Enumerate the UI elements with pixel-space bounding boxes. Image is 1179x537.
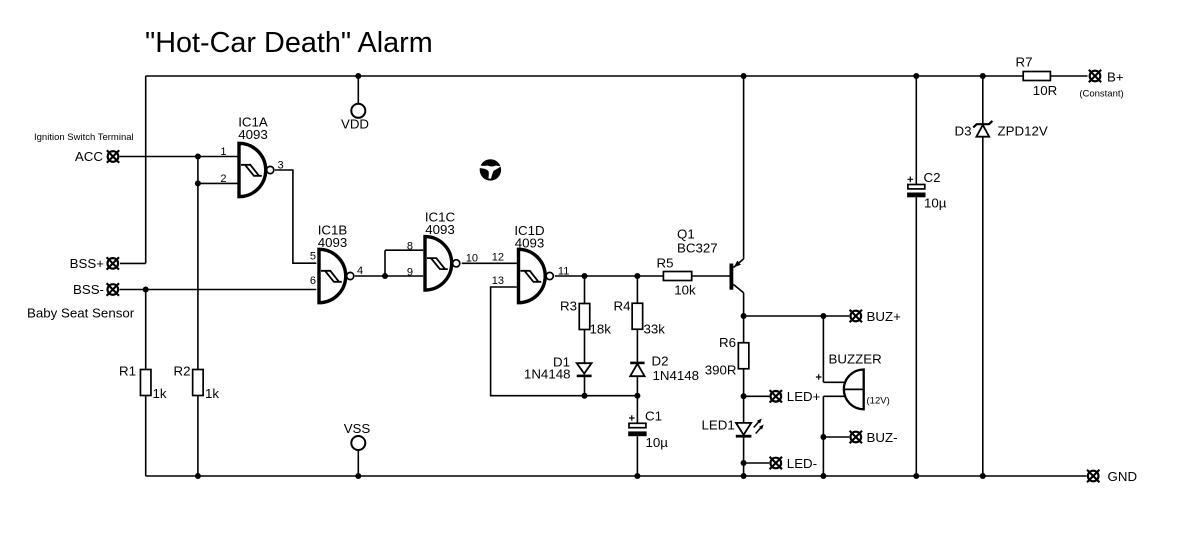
svg-text:LED-: LED- <box>787 456 817 471</box>
svg-text:(12V): (12V) <box>867 396 890 407</box>
svg-text:8: 8 <box>407 241 413 253</box>
svg-text:ZPD12V: ZPD12V <box>998 124 1048 139</box>
svg-text:D2: D2 <box>652 354 669 369</box>
svg-text:C2: C2 <box>924 170 941 185</box>
svg-text:1k: 1k <box>153 386 167 401</box>
svg-text:Ignition Switch Terminal: Ignition Switch Terminal <box>34 132 134 143</box>
svg-text:5: 5 <box>310 251 316 263</box>
svg-text:R2: R2 <box>174 364 191 379</box>
svg-text:13: 13 <box>492 275 504 287</box>
svg-text:4093: 4093 <box>425 222 455 237</box>
svg-text:1k: 1k <box>205 386 219 401</box>
svg-text:6: 6 <box>310 275 316 287</box>
svg-text:GND: GND <box>1108 469 1138 484</box>
svg-text:10: 10 <box>466 253 478 265</box>
svg-text:BSS+: BSS+ <box>70 256 105 271</box>
svg-text:1: 1 <box>220 146 226 158</box>
svg-text:10µ: 10µ <box>924 196 947 211</box>
svg-text:Q1: Q1 <box>677 227 695 242</box>
svg-text:R5: R5 <box>657 256 674 271</box>
svg-text:LED1: LED1 <box>702 418 735 433</box>
svg-text:R4: R4 <box>614 299 631 314</box>
svg-text:C1: C1 <box>645 409 662 424</box>
svg-text:ACC: ACC <box>75 149 103 164</box>
svg-text:12: 12 <box>492 252 504 264</box>
svg-text:Baby Seat Sensor: Baby Seat Sensor <box>27 306 135 321</box>
svg-text:10µ: 10µ <box>646 435 669 450</box>
svg-text:BUZ+: BUZ+ <box>867 309 902 324</box>
svg-text:1N4148: 1N4148 <box>524 367 571 382</box>
svg-text:9: 9 <box>407 267 413 279</box>
svg-text:4093: 4093 <box>515 236 545 251</box>
svg-text:BUZZER: BUZZER <box>829 352 882 367</box>
svg-text:VDD: VDD <box>341 117 369 132</box>
svg-text:4: 4 <box>357 265 363 277</box>
svg-text:R1: R1 <box>119 364 136 379</box>
svg-text:R6: R6 <box>719 335 736 350</box>
svg-text:33k: 33k <box>644 322 666 337</box>
svg-text:D3: D3 <box>955 124 972 139</box>
svg-text:BC327: BC327 <box>677 241 718 256</box>
svg-text:VSS: VSS <box>344 421 371 436</box>
svg-text:4093: 4093 <box>238 127 268 142</box>
svg-text:3: 3 <box>278 160 284 172</box>
svg-text:2: 2 <box>220 173 226 185</box>
svg-text:1N4148: 1N4148 <box>653 368 700 383</box>
svg-text:18k: 18k <box>590 322 612 337</box>
svg-text:"Hot-Car Death" Alarm: "Hot-Car Death" Alarm <box>145 27 433 59</box>
svg-text:390R: 390R <box>705 363 737 378</box>
svg-text:LED+: LED+ <box>787 389 821 404</box>
svg-text:B+: B+ <box>1107 70 1124 85</box>
svg-text:BSS-: BSS- <box>73 282 104 297</box>
svg-text:4093: 4093 <box>318 235 348 250</box>
svg-text:11: 11 <box>558 266 569 278</box>
svg-text:10R: 10R <box>1033 83 1057 98</box>
svg-text:R7: R7 <box>1016 55 1033 70</box>
svg-text:BUZ-: BUZ- <box>867 430 898 445</box>
svg-text:(Constant): (Constant) <box>1079 89 1123 100</box>
svg-text:R3: R3 <box>560 299 577 314</box>
svg-text:10k: 10k <box>674 283 696 298</box>
